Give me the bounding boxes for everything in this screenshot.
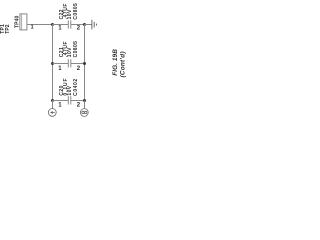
junction top-left node [51,23,54,26]
ground [92,20,97,30]
wire stub to left off-page connector [52,101,54,109]
value label 10V (C20) [67,85,73,95]
wire mid: C21 pin2 to right rail [71,63,85,65]
svg-text:1: 1 [58,66,62,72]
svg-text:10V: 10V [67,9,73,19]
capacitor C20 [68,96,71,104]
svg-text:1: 1 [58,26,62,32]
junction mid-left node [51,62,54,65]
svg-text:1: 1 [58,102,62,108]
value label .47UF (C21) [63,41,69,57]
svg-text:C0805: C0805 [73,41,79,58]
svg-text:2: 2 [77,26,81,32]
junction bottom-right node [83,99,86,102]
value label C21 [59,47,65,57]
off-page connector right [80,109,88,117]
wire bottom: C20 pin2 to right rail [71,100,85,102]
value label 0.1UF (C20) [63,77,69,95]
wire to ground [85,24,92,26]
pin 2 of C20 [77,102,81,108]
wire TP40 pin1 to left rail [27,24,53,26]
off-page connector left [48,109,56,117]
value label C22 [59,9,65,19]
svg-text:10V: 10V [67,47,73,57]
junction bottom-left node [51,99,54,102]
value label 10V (C21) [67,47,73,57]
svg-text:(Cont'd): (Cont'd) [119,51,126,77]
svg-text:2: 2 [77,102,81,108]
capacitor C22 [68,20,71,28]
svg-text:TP2: TP2 [5,24,11,34]
wire bottom: left rail to C20 pin1 [53,100,69,102]
svg-text:2: 2 [77,66,81,72]
test point connector TP40 box [20,14,27,30]
wire right rail [84,25,86,101]
wire top: node to C22 pin1 [53,24,69,26]
pin 1 of TP40 [31,25,34,31]
value label .47UF (C22) [63,3,69,19]
junction mid-right node [83,62,86,65]
wire stub to right off-page connector [84,101,86,109]
pin 2 of C22 [77,26,81,32]
figure caption FIG. 19B [112,49,119,76]
pin 1 of C22 [58,26,62,32]
label TP1 [0,24,6,34]
value label C0402 (C20) [73,78,79,95]
wire top: C22 pin2 to right rail node [71,24,85,26]
svg-text:FIG. 19B: FIG. 19B [112,49,119,76]
wire mid: left rail to C21 pin1 [53,63,69,65]
value label C0805 (C22) [73,3,79,20]
svg-text:C0805: C0805 [73,3,79,20]
junction top-right node [83,23,86,26]
value label C20 [59,85,65,95]
capacitor C21 [68,59,71,67]
wire left rail [52,25,54,101]
svg-text:1: 1 [31,25,34,31]
svg-text:C0402: C0402 [73,78,79,95]
value label C0805 (C21) [73,41,79,58]
svg-text:10V: 10V [67,85,73,95]
pin 1 of C21 [58,66,62,72]
pin 2 of C21 [77,66,81,72]
value label 10V (C22) [67,9,73,19]
figure caption (Cont'd) [119,51,126,77]
label TP40 [15,16,21,28]
pin 1 of C20 [58,102,62,108]
label TP2 [5,24,11,34]
